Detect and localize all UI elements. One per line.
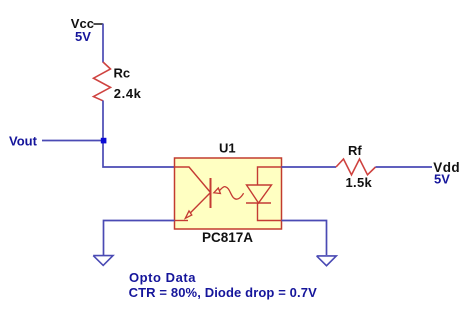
resistor Rc: [94, 62, 111, 101]
node Vdd label: [433, 160, 460, 187]
wire Rc to junction and down to U1 pin row: [103, 101, 175, 168]
node Vcc label: [71, 16, 94, 44]
wire Rf to Vdd: [376, 166, 433, 168]
wire Vcc down to Rc: [102, 24, 104, 63]
ground (right): [317, 256, 337, 266]
optocoupler U1 (PC817A) body: [175, 158, 282, 229]
wire U1 bottom-left to ground: [104, 221, 175, 256]
svg-text:Vout: Vout: [9, 134, 38, 149]
junction at Vout node: [101, 138, 107, 144]
wire Vout: [42, 140, 103, 142]
svg-text:5V: 5V: [434, 172, 450, 187]
svg-text:1.5k: 1.5k: [346, 175, 373, 190]
label Opto Data annotation: [129, 270, 318, 300]
label Rc value: [114, 66, 142, 101]
label Rf value: [346, 143, 373, 190]
label PC817A: [202, 230, 253, 245]
wire U1 top-right to Rf: [282, 166, 337, 168]
wire Vcc stub (black dash): [94, 23, 104, 25]
svg-text:Rc: Rc: [114, 66, 131, 81]
diode D (LED inside U1): [246, 167, 282, 221]
svg-text:CTR = 80%, Diode drop = 0.7V: CTR = 80%, Diode drop = 0.7V: [129, 285, 318, 300]
svg-text:5V: 5V: [75, 29, 91, 44]
node Vout label: [9, 134, 38, 149]
svg-text:PC817A: PC817A: [202, 230, 253, 245]
transistor Q (photo-transistor inside U1): [175, 167, 211, 221]
svg-text:Rf: Rf: [348, 143, 362, 158]
svg-text:2.4k: 2.4k: [114, 86, 142, 101]
wire light-arrow squiggle inside U1: [214, 187, 244, 200]
label U1: [219, 141, 236, 156]
svg-text:U1: U1: [219, 141, 236, 156]
wire U1 bottom-right to ground: [282, 221, 327, 256]
resistor Rf: [336, 159, 376, 175]
ground (left): [93, 256, 113, 266]
svg-text:Opto Data: Opto Data: [129, 270, 196, 285]
